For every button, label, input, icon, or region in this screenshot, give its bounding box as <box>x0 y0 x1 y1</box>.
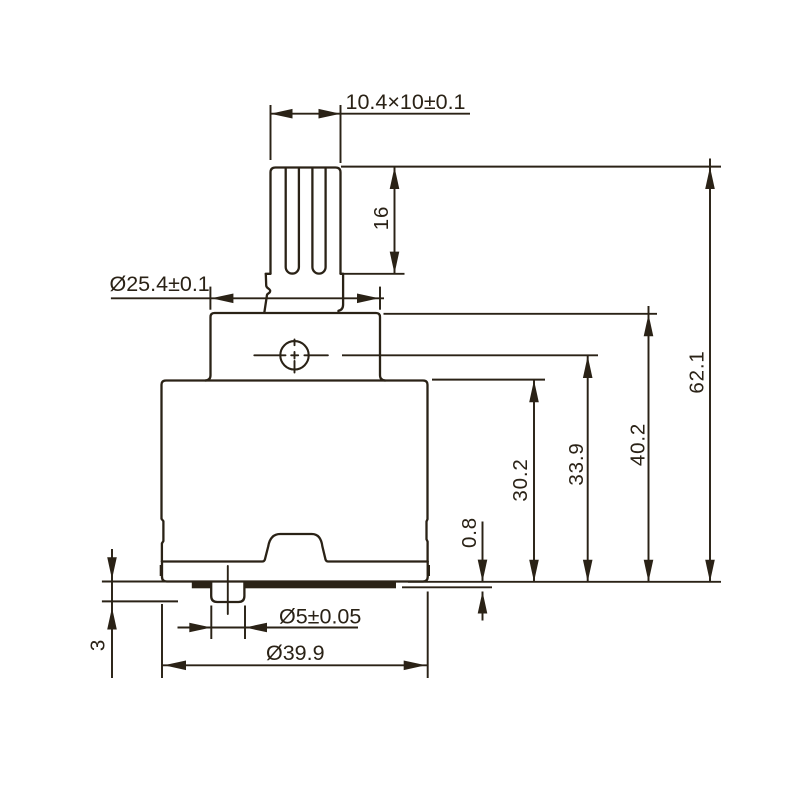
dim 39.9 arrow left <box>164 661 186 671</box>
svg-text:Ø25.4±0.1: Ø25.4±0.1 <box>110 272 210 296</box>
stem spline slot left <box>286 169 299 274</box>
dim 0.8 dimension line lower <box>482 592 484 621</box>
dim 39.9 extension line left <box>161 604 163 678</box>
stem base jog right <box>341 273 344 275</box>
dim 3 upper reference line <box>102 581 166 583</box>
seal bar left segment <box>192 583 212 589</box>
bottom reference line (plate bottom level) <box>408 581 721 583</box>
dim 5 extension line right <box>244 606 246 640</box>
dim 30.2 dimension line <box>533 380 535 582</box>
dim 30.2 top reference line <box>432 379 545 381</box>
dim 33.9 arrow top <box>583 356 593 378</box>
dim 39.9 arrow right <box>404 661 426 671</box>
dim 40.2 arrow bottom <box>644 560 654 582</box>
side tab left <box>160 565 162 576</box>
dim 25.4 arrow right <box>357 294 379 304</box>
dim 5 dimension line <box>178 627 359 629</box>
screw vertical centerline <box>294 340 296 373</box>
svg-text:16: 16 <box>370 206 393 230</box>
dim 25.4 extension tick left <box>209 287 211 310</box>
stem base jog left <box>266 273 271 275</box>
dim 5 arrow right <box>245 623 267 633</box>
svg-text:33.9: 33.9 <box>565 442 588 485</box>
neck (Ø25.4 section) outline <box>205 313 385 381</box>
dim 62.1 arrow bottom <box>705 560 715 582</box>
side tab right <box>428 565 430 576</box>
main body outline <box>162 381 428 562</box>
dim 10.4x10 extension line left <box>270 105 272 160</box>
svg-text:62.1: 62.1 <box>686 350 709 393</box>
screw circle <box>280 341 308 369</box>
dim 3 arrow upper <box>107 557 117 579</box>
dim 25.4 extension tick right <box>379 287 381 310</box>
dim 25.4 arrow left <box>211 294 233 304</box>
dim 39.9 dimension line <box>162 664 428 666</box>
dim 16 bottom reference line <box>341 273 405 275</box>
dim 3 arrow lower <box>107 608 117 630</box>
screw centerline extension (33.9 top reference) <box>342 354 598 356</box>
dim 10.4x10 arrow left <box>271 109 293 119</box>
dim 16 arrow top <box>390 167 400 189</box>
dim 30.2 arrow bottom <box>529 560 539 582</box>
pin centerline <box>227 566 229 614</box>
dim 3 lower reference line <box>102 600 178 602</box>
dim 62.1 dimension line <box>709 159 711 583</box>
dim 33.9 arrow bottom <box>583 560 593 582</box>
screw horizontal centerline <box>254 354 328 356</box>
dim 10.4x10 arrow right <box>319 109 341 119</box>
dim 62.1 arrow top <box>705 167 715 189</box>
svg-text:Ø39.9: Ø39.9 <box>266 641 325 665</box>
stem spline slot right <box>312 169 325 274</box>
svg-text:0.8: 0.8 <box>458 517 481 548</box>
bottom pin <box>211 582 244 602</box>
dim 40.2 dimension line <box>648 306 650 582</box>
svg-text:30.2: 30.2 <box>509 458 532 501</box>
dim 5 extension line left <box>210 606 212 640</box>
base plate outline <box>162 562 428 582</box>
stem base break line left <box>264 274 270 313</box>
dim 33.9 dimension line <box>587 356 589 582</box>
dim 40.2 arrow top <box>644 314 654 336</box>
stem base break line right <box>338 274 343 311</box>
dim 39.9 extension line right <box>427 592 429 679</box>
splined stem outline <box>271 168 341 274</box>
dim 3 dimension line <box>111 549 113 678</box>
dim 5 arrow left <box>189 623 211 633</box>
dim 25.4 dimension line <box>111 297 384 299</box>
dim 0.8 arrow upper <box>478 560 488 582</box>
svg-text:Ø5±0.05: Ø5±0.05 <box>279 605 361 629</box>
dim 10.4x10 dimension line <box>271 113 471 115</box>
dim 40.2 top reference line <box>384 313 658 315</box>
dim 30.2 arrow top <box>529 380 539 402</box>
dim 10.4x10 extension line right <box>340 105 342 163</box>
dim 0.8 lower reference line <box>402 586 492 588</box>
body bottom edge with spout tab <box>162 534 428 562</box>
dim 16 arrow bottom <box>390 252 400 274</box>
svg-text:3: 3 <box>87 639 110 651</box>
dim 0.8 dimension line upper <box>482 522 484 582</box>
top reference line (stem top, for 16 and 62.1) <box>341 166 721 168</box>
svg-text:40.2: 40.2 <box>627 423 650 466</box>
dim 0.8 arrow lower <box>478 592 488 614</box>
seal bar right segment <box>244 583 396 589</box>
svg-text:10.4×10±0.1: 10.4×10±0.1 <box>346 90 466 114</box>
dim 16 dimension line <box>394 167 396 274</box>
